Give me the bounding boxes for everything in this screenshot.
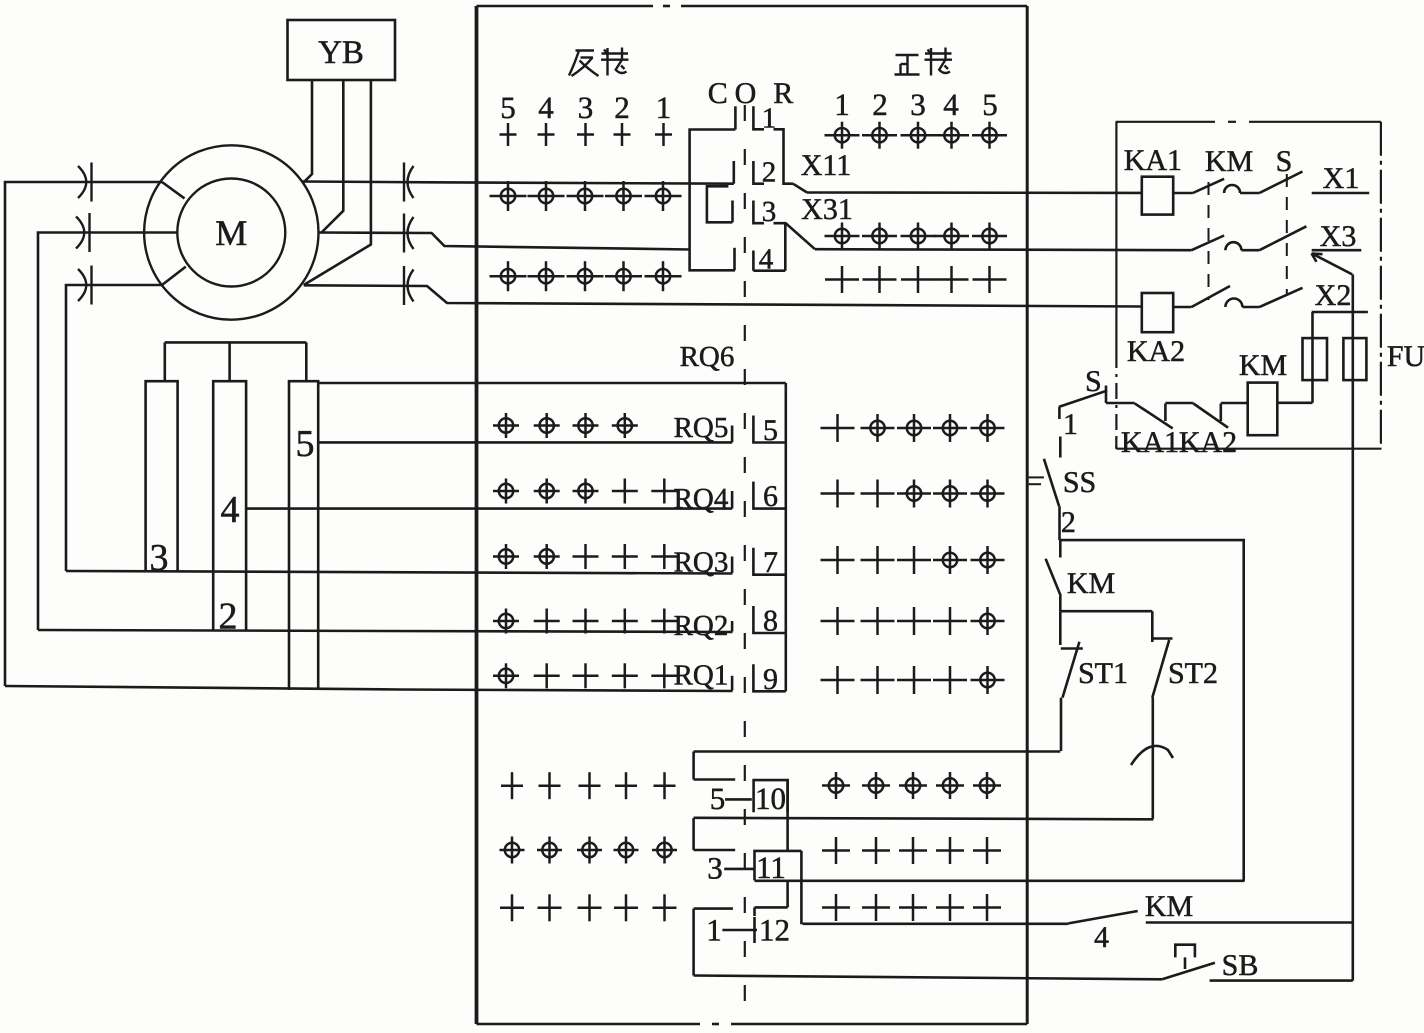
wire motor stator stub lower-left <box>162 267 186 285</box>
svg-text:S: S <box>1085 365 1102 398</box>
wire YB lead A <box>304 80 312 182</box>
relay coil KA1 <box>1142 177 1173 215</box>
wire bottom line to SB <box>694 976 1163 980</box>
wire top line of lower group to ST1 branch <box>694 750 1061 753</box>
wire tap 4 to contact row 6 <box>246 507 732 510</box>
terminal X2 <box>1312 311 1368 314</box>
right bracket fingers 3-4 jumper <box>774 223 786 271</box>
svg-text:5: 5 <box>710 781 726 816</box>
wire slant to X11 <box>793 184 807 193</box>
contact row 9 left hook <box>731 676 734 691</box>
svg-text:3: 3 <box>578 90 594 125</box>
wire right fuse down to KM interlock <box>1352 274 1355 922</box>
svg-text:C: C <box>708 77 728 110</box>
box around contact number 11 <box>755 851 802 881</box>
svg-text:X31: X31 <box>801 193 853 226</box>
connector on phase 3 left <box>78 269 86 301</box>
svg-text:1: 1 <box>706 913 722 948</box>
wire long line row 12 to KM interlock <box>803 922 1069 925</box>
limit switch ST1 <box>1060 611 1083 751</box>
forward contact row 2 (closed contacts) <box>835 229 849 243</box>
svg-text:YB: YB <box>318 35 364 71</box>
resistor bank 2 <box>213 381 246 631</box>
svg-text:X11: X11 <box>801 149 852 182</box>
svg-text:2: 2 <box>1061 506 1076 539</box>
svg-text:4: 4 <box>538 90 554 125</box>
switch S master blade <box>1059 386 1106 420</box>
contactor coil KM <box>1248 383 1278 436</box>
svg-text:ST2: ST2 <box>1168 657 1218 690</box>
row 6 left contact symbols <box>499 484 513 498</box>
wire tick row 10 across axis <box>725 798 752 801</box>
connector on phase 1 right <box>403 163 405 202</box>
forward contact row 1 (closed contacts) <box>835 128 849 142</box>
wire node 2 branch line <box>1060 540 1244 881</box>
wire phase 1 bottom run to contact row 9 <box>5 686 733 691</box>
YB electromagnetic brake box <box>288 20 396 80</box>
lower group row 12 left bracket to bottom line <box>694 909 733 976</box>
wire tick row 11 across axis <box>724 868 754 871</box>
contact S row 3 <box>1259 288 1302 307</box>
svg-text:RQ4: RQ4 <box>674 483 729 515</box>
terminal X1 <box>1312 192 1370 195</box>
left finger hook row 1 <box>734 106 737 129</box>
svg-text:X3: X3 <box>1320 220 1357 253</box>
fuse FU left <box>1303 338 1328 380</box>
svg-text:RQ1: RQ1 <box>674 660 729 692</box>
lower left contact row C (open) <box>500 907 524 910</box>
svg-text:5: 5 <box>982 87 998 122</box>
svg-text:RQ5: RQ5 <box>674 412 729 444</box>
wire KA1 to KM contact <box>1173 192 1193 195</box>
forward contact row 3 (open contacts) <box>825 278 859 281</box>
svg-text:O: O <box>735 77 757 110</box>
resistor bus above banks <box>165 341 306 344</box>
wire phase 2 right run with jog <box>319 233 691 250</box>
row 5 right contact symbols <box>821 427 855 430</box>
svg-text:KA1: KA1 <box>1124 144 1182 177</box>
row 8 left contact symbols <box>499 614 513 628</box>
row 7 left contact symbols <box>499 549 513 563</box>
svg-text:M: M <box>215 213 247 253</box>
row 9 right contact symbols <box>821 679 855 682</box>
wire tick row 12 across axis <box>722 929 757 932</box>
reverse contact row 2 (closed contacts) <box>501 269 515 283</box>
left finger hook row 4 <box>733 248 736 270</box>
left finger hook row 3 <box>731 201 734 223</box>
wire stem to resistor bank 3 <box>305 342 308 381</box>
reverse header cross marks <box>500 133 517 136</box>
row 8 right contact symbols <box>821 620 855 623</box>
left comb inner bracket (fingers 2 and 3 jumper) <box>707 186 733 222</box>
svg-text:KA2: KA2 <box>1179 426 1237 459</box>
right finger hook row 1 <box>753 106 764 129</box>
terminal X3 <box>1312 249 1362 252</box>
svg-text:1: 1 <box>1063 408 1078 441</box>
contact KM auxiliary <box>1059 540 1062 557</box>
svg-text:6: 6 <box>763 480 778 513</box>
lower right contact row A (closed) <box>829 778 843 792</box>
wire X2 to left fuse through to KM coil <box>1311 312 1314 403</box>
svg-text:5: 5 <box>500 90 516 125</box>
wire step down to row 12 shelf <box>755 881 788 916</box>
row 6 right contact symbols <box>821 492 855 495</box>
wire phase 2 bottom run to contact row 8 <box>38 630 733 632</box>
controller frame bottom border <box>477 1023 701 1026</box>
right finger hook row 4 and bracket bottom <box>753 251 785 271</box>
svg-text:RQ6: RQ6 <box>680 341 735 373</box>
lower group step row 11 left bracket <box>694 818 736 850</box>
wire phase 2 left loop <box>38 233 178 631</box>
svg-text:KM: KM <box>1067 567 1115 600</box>
label fan-zhuan (reverse) heading <box>576 49 595 51</box>
wire SB to right branch <box>1210 979 1353 982</box>
contact row 7 right foot and hook <box>753 548 785 575</box>
svg-text:KM: KM <box>1205 145 1253 178</box>
svg-text:9: 9 <box>763 663 778 696</box>
svg-text:4: 4 <box>221 489 240 531</box>
wire YB lead B <box>321 80 343 233</box>
svg-text:1: 1 <box>656 90 672 125</box>
svg-text:8: 8 <box>763 605 778 638</box>
contact KM interlock (node 4) <box>1068 911 1137 923</box>
changeover switch panel dash-dot top border <box>1116 121 1215 123</box>
wire YB lead C <box>304 80 371 285</box>
row 7 right contact symbols <box>821 559 855 562</box>
push button SB <box>1162 963 1215 980</box>
wire KM interlock to SB branch <box>1146 923 1353 981</box>
svg-text:4: 4 <box>1094 921 1109 954</box>
motor M <box>144 145 318 319</box>
relay coil KA2 <box>1142 293 1173 332</box>
tick mark row 12 <box>753 917 756 943</box>
svg-text:5: 5 <box>296 423 315 465</box>
svg-text:2: 2 <box>219 596 238 638</box>
svg-text:KM: KM <box>1239 349 1287 382</box>
wire stem to resistor bank 2 <box>228 342 231 381</box>
wire phase 1 right run to controller <box>302 182 734 184</box>
lower group step row 10 left bracket <box>694 752 736 780</box>
row 9 left contact symbols <box>499 669 513 683</box>
contact S row 1 <box>1259 172 1302 194</box>
contact KA2 normally closed <box>1165 403 1247 428</box>
wire box10 right edge down to row 11 <box>786 780 789 851</box>
svg-text:7: 7 <box>763 546 778 579</box>
wire motor stator stub upper-left <box>162 182 185 198</box>
svg-text:3: 3 <box>707 851 723 886</box>
wire long line under row 10 to ST2 branch <box>694 818 1154 820</box>
lower left contact row B (closed) <box>505 843 519 857</box>
S linkage dashed line <box>1286 174 1288 295</box>
wire arrow from X3 to fuse <box>1313 254 1353 275</box>
rotor block right edge <box>784 383 787 691</box>
wire slant to X31 <box>786 224 815 250</box>
wire KM coil return line <box>1116 438 1381 449</box>
svg-text:S: S <box>1276 145 1293 178</box>
svg-text:KA2: KA2 <box>1127 335 1185 368</box>
contact row 7 left hook <box>731 557 734 574</box>
lower right contact row C (open) <box>822 906 850 909</box>
right finger hook row 3 <box>753 201 764 224</box>
box around contact number 10 <box>754 780 788 812</box>
wire phase 3 bottom run to contact row 7 <box>66 571 733 574</box>
svg-text:3: 3 <box>150 537 169 579</box>
wire phase 1 left loop <box>5 182 162 686</box>
resistor bank 1 <box>146 381 178 571</box>
wire to S contact row 1 <box>1240 192 1259 195</box>
contact KM row 3 <box>1192 286 1231 307</box>
svg-text:RQ3: RQ3 <box>674 547 729 579</box>
limit switch ST2 <box>1152 639 1172 819</box>
contact row 6 left hook <box>731 491 734 509</box>
wire to S contact row 3 <box>1242 306 1259 309</box>
svg-text:4: 4 <box>759 244 774 276</box>
svg-text:SB: SB <box>1222 949 1259 982</box>
wire to S contact row 2 <box>1241 249 1259 252</box>
wire split to ST1 ST2 <box>1060 611 1152 642</box>
connector on phase 1 left <box>78 166 86 198</box>
reverse contact row 1 (closed contacts) <box>501 189 515 203</box>
svg-text:2: 2 <box>762 157 777 189</box>
svg-text:X2: X2 <box>1315 279 1352 312</box>
controller frame right border <box>1026 6 1029 1024</box>
wire KA2 to KM contact row 3 <box>1173 306 1191 309</box>
left comb outer bracket (fingers 1 and 4 jumper) <box>690 130 736 271</box>
node 2 <box>1058 506 1061 540</box>
connector on phase 3 right <box>403 266 405 305</box>
mechanical actuator arc on ST2 branch <box>1131 746 1173 765</box>
svg-text:FU: FU <box>1387 340 1424 373</box>
controller axis center dashed line <box>744 105 746 1023</box>
wire phase 3 right run with jog to KA2 <box>304 285 1142 306</box>
label zheng-zhuan (forward) heading <box>896 54 919 56</box>
svg-text:SS: SS <box>1063 466 1096 499</box>
svg-text:1: 1 <box>834 87 850 122</box>
svg-text:2: 2 <box>614 90 630 125</box>
fuse FU right <box>1343 338 1366 380</box>
svg-text:5: 5 <box>763 414 778 447</box>
connector on phase 2 left <box>76 217 84 249</box>
contact KA1 normally closed <box>1106 391 1173 428</box>
wire X31 output <box>815 249 1192 250</box>
svg-text:X1: X1 <box>1323 162 1360 195</box>
svg-text:3: 3 <box>910 87 926 122</box>
right finger hook row 2 <box>753 161 764 184</box>
row 5 left contact symbols <box>499 418 513 432</box>
svg-text:RQ2: RQ2 <box>674 610 729 642</box>
controller frame left border <box>475 6 479 1024</box>
changeover switch panel right border <box>1380 122 1382 449</box>
contact row 5 left hook <box>731 426 734 443</box>
wire phase 3 left loop <box>66 285 162 571</box>
connector on phase 2 right <box>403 214 405 253</box>
rotor block top line RQ6 <box>318 382 786 385</box>
lower right contact row B (open) <box>822 849 850 852</box>
wire stem to resistor bank 1 <box>164 342 167 381</box>
KM linkage dashed line <box>1208 182 1210 300</box>
controller frame top border <box>477 5 654 8</box>
left finger hook row 2 <box>732 161 735 184</box>
svg-text:10: 10 <box>755 781 786 816</box>
contact KM row 2 <box>1192 236 1225 251</box>
wire X11 to KA1 <box>807 191 1142 194</box>
svg-text:KA1: KA1 <box>1121 426 1179 459</box>
svg-text:KM: KM <box>1145 890 1193 923</box>
contact row 5 right foot and hook <box>753 416 785 443</box>
contact S row 2 <box>1259 226 1306 250</box>
contact KM row 1 <box>1193 179 1224 193</box>
right bracket fingers 1-2 jumper <box>774 129 794 183</box>
svg-text:ST1: ST1 <box>1078 657 1128 690</box>
lower left contact row A (open) <box>501 784 523 787</box>
wire node 1 to SS <box>1059 437 1062 458</box>
svg-text:2: 2 <box>872 87 888 122</box>
svg-text:12: 12 <box>759 913 790 948</box>
wire tap 5 to contact row 5 <box>318 441 732 444</box>
contact row 9 right foot and hook <box>753 664 785 691</box>
contact row 6 right foot and hook <box>753 482 785 509</box>
changeover switch panel left border <box>1115 122 1117 352</box>
contact row 8 right foot and hook <box>753 606 785 633</box>
svg-text:4: 4 <box>943 87 959 122</box>
wire step edge right of 11 <box>800 851 803 924</box>
resistor bank 3 <box>289 381 318 690</box>
wire long line under row 11 to right branch <box>755 879 1245 882</box>
wire left fuse to KM coil <box>1277 401 1312 404</box>
contact row 8 left hook <box>731 621 734 632</box>
switch SS with detent marks <box>1029 476 1044 478</box>
